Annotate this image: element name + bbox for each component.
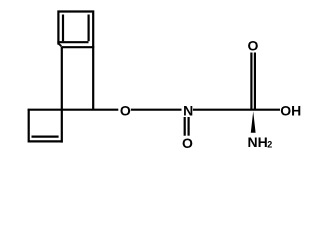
double bond inner line: top square right <box>87 15 89 42</box>
svg-text:O: O <box>120 103 131 119</box>
double bond inner line: bottom square bottom <box>32 136 59 138</box>
svg-text:N: N <box>183 103 193 119</box>
ring bond: bottom square left and bottom edges <box>29 109 63 141</box>
svg-text:O: O <box>182 135 193 151</box>
svg-text:OH: OH <box>280 103 301 119</box>
svg-text:O: O <box>248 38 259 54</box>
double bond N=O line 1 <box>184 117 186 136</box>
svg-text:2: 2 <box>267 139 272 149</box>
double bond C=O line 1 <box>250 53 252 110</box>
ring bond: shared vertical (tall rectangle left / bottom square right) <box>61 46 63 142</box>
svg-text:NH: NH <box>248 134 268 150</box>
ring bond: top square bottom edge <box>57 41 88 43</box>
ring bond: top square outline (left edge, top edge, long right edge down to chain) <box>58 12 93 110</box>
double bond N=O line 2 <box>188 117 190 136</box>
wedge bond to NH2 <box>251 111 256 133</box>
bond: main chain left horizontal to ether O <box>28 109 119 111</box>
bond: O to N <box>131 109 182 111</box>
double bond inner line: top square left <box>62 15 64 42</box>
ring bond: tall rectangle top edge <box>62 46 94 48</box>
bond: N to C and C to OH <box>193 109 280 111</box>
bond: short diagonal linking squares <box>59 44 62 46</box>
double bond C=O line 2 <box>254 53 256 110</box>
